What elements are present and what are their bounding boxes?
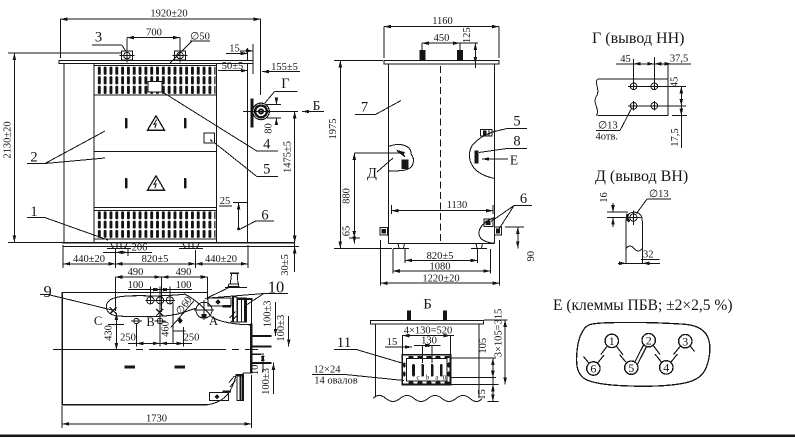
svg-text:11: 11 [337,335,351,351]
svg-text:80: 80 [264,123,275,134]
svg-text:250: 250 [184,333,200,344]
svg-text:1920±20: 1920±20 [150,9,187,20]
svg-text:1475±5: 1475±5 [283,141,294,173]
svg-text:5: 5 [513,114,520,130]
svg-text:32: 32 [643,250,654,261]
svg-text:4: 4 [263,137,271,153]
svg-text:1220±20: 1220±20 [422,273,459,284]
svg-text:14 овалов: 14 овалов [314,376,357,387]
svg-text:100: 100 [176,280,192,291]
svg-text:2130±20: 2130±20 [3,121,14,158]
svg-text:6: 6 [261,208,268,224]
svg-text:1: 1 [30,204,37,220]
svg-text:Е (клеммы ПБВ; ±2×2,5 %): Е (клеммы ПБВ; ±2×2,5 %) [553,297,733,314]
svg-text:820±5: 820±5 [142,254,169,265]
svg-text:5: 5 [263,162,270,178]
svg-text:90: 90 [526,251,537,262]
svg-text:∅13: ∅13 [598,121,618,132]
svg-text:430: 430 [104,325,115,341]
svg-text:880: 880 [342,188,353,204]
svg-text:490: 490 [176,267,192,278]
svg-text:490: 490 [128,267,144,278]
svg-text:Д: Д [367,166,377,182]
svg-text:820±5: 820±5 [427,251,454,262]
svg-text:30±5: 30±5 [280,254,291,276]
svg-text:15: 15 [387,337,398,348]
svg-text:155±5: 155±5 [271,62,298,73]
svg-text:100±3: 100±3 [276,315,287,342]
svg-text:Е: Е [510,153,518,168]
svg-text:105: 105 [478,338,489,354]
svg-text:b: b [426,374,430,382]
svg-text:700: 700 [146,28,162,39]
svg-text:Г (вывод НН): Г (вывод НН) [592,30,684,47]
svg-text:17,5: 17,5 [670,128,681,146]
svg-text:3: 3 [682,334,688,348]
svg-text:1160: 1160 [432,16,453,27]
svg-text:Г: Г [281,76,289,92]
svg-text:∅50: ∅50 [190,32,210,43]
svg-text:15: 15 [229,44,240,55]
svg-text:45: 45 [670,77,681,88]
svg-text:C: C [94,314,102,328]
svg-text:10: 10 [268,278,285,297]
svg-text:130: 130 [421,336,437,347]
svg-text:440±20: 440±20 [73,254,105,265]
svg-text:7: 7 [361,100,368,116]
svg-text:B: B [146,315,154,329]
svg-text:65: 65 [342,226,353,237]
svg-text:50±5: 50±5 [222,61,244,72]
svg-text:3×105=315: 3×105=315 [494,309,505,358]
svg-text:15: 15 [477,389,488,400]
svg-text:440±20: 440±20 [205,254,237,265]
svg-text:3: 3 [95,30,102,46]
svg-text:8: 8 [513,134,520,150]
svg-text:2: 2 [30,150,37,166]
svg-text:100±3: 100±3 [262,301,273,328]
svg-text:1975: 1975 [328,119,339,140]
svg-text:25: 25 [220,196,231,207]
svg-text:c: c [417,374,420,382]
svg-text:9: 9 [44,282,52,301]
svg-text:100: 100 [128,280,144,291]
svg-text:6: 6 [590,362,596,376]
svg-text:5: 5 [628,361,634,375]
svg-text:Б: Б [313,98,321,113]
svg-text:1130: 1130 [447,200,468,211]
svg-text:1730: 1730 [146,414,167,425]
svg-text:1: 1 [609,334,615,348]
svg-text:45: 45 [620,54,631,65]
svg-text:Д (вывод ВН): Д (вывод ВН) [595,168,688,185]
svg-text:12×24: 12×24 [314,365,342,376]
svg-text:4отв.: 4отв. [596,132,619,143]
svg-text:16: 16 [599,192,610,203]
svg-text:206: 206 [132,243,148,254]
svg-text:37,5: 37,5 [670,54,688,65]
svg-text:460: 460 [161,321,172,337]
svg-text:6: 6 [520,191,527,207]
svg-text:10: 10 [250,365,261,376]
svg-text:Б: Б [423,297,432,313]
svg-text:4: 4 [663,361,669,375]
svg-text:0: 0 [443,374,447,382]
svg-text:2: 2 [646,333,652,347]
svg-text:100±3: 100±3 [261,368,272,395]
svg-text:250: 250 [120,333,136,344]
svg-text:∅13: ∅13 [649,189,669,200]
svg-text:1080: 1080 [430,261,451,272]
svg-text:A: A [209,314,218,328]
svg-text:125: 125 [462,27,473,43]
svg-text:450: 450 [434,33,450,44]
